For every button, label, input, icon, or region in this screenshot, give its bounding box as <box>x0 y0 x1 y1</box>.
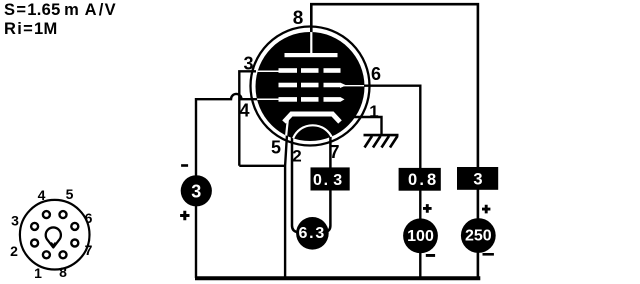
svg-text:8: 8 <box>293 8 304 29</box>
wire pin8 anode to HT top rail <box>311 4 478 278</box>
battery 3 minus <box>181 164 188 167</box>
svg-text:Ri=1M: Ri=1M <box>4 20 58 38</box>
grid row2 <box>279 83 346 88</box>
socket key <box>46 227 61 247</box>
svg-text:5: 5 <box>271 138 281 158</box>
svg-text:4: 4 <box>38 187 46 203</box>
resistor box 0.8 <box>399 168 441 191</box>
svg-text:100: 100 <box>407 228 434 245</box>
svg-text:3: 3 <box>191 181 201 201</box>
supply 250 plus <box>482 205 490 214</box>
anode lead white <box>310 31 312 54</box>
grid row1 <box>279 68 341 73</box>
svg-text:4: 4 <box>239 101 249 121</box>
socket pin5 hole <box>60 211 67 218</box>
svg-text:0.3: 0.3 <box>313 172 342 189</box>
svg-text:0.8: 0.8 <box>408 171 436 189</box>
tube V1 envelope <box>251 27 370 146</box>
wire heater pin7 <box>325 137 330 232</box>
supply 250 minus <box>483 253 494 256</box>
svg-text:S=1.65mA/V: S=1.65mA/V <box>4 1 116 19</box>
svg-text:1: 1 <box>34 265 42 281</box>
socket pin2 hole <box>31 240 38 247</box>
supply 100 plus <box>423 204 432 213</box>
socket pin1 hole <box>43 251 50 258</box>
heater supply 6.3 <box>296 217 329 250</box>
resistor box 3 <box>457 167 498 190</box>
svg-text:6: 6 <box>371 64 381 84</box>
grid3 lead white (pin4) <box>256 98 280 100</box>
wire pin3 grid down <box>239 71 256 166</box>
tube V1 interior <box>256 31 365 145</box>
heater arc <box>292 125 333 145</box>
svg-text:8: 8 <box>59 264 67 280</box>
battery 3 (grid bias) <box>181 175 212 206</box>
cathode <box>284 114 340 122</box>
svg-text:6: 6 <box>85 210 93 226</box>
wire pin1 to ground <box>350 117 382 134</box>
battery 3 plus <box>180 211 189 220</box>
anode plate <box>285 53 338 57</box>
svg-text:2: 2 <box>292 147 301 166</box>
svg-text:7: 7 <box>85 242 93 258</box>
supply 250 <box>461 218 496 253</box>
socket pin4 hole <box>43 211 50 218</box>
socket pin8 hole <box>60 251 67 258</box>
ground <box>364 135 399 147</box>
svg-text:6.3: 6.3 <box>298 225 324 242</box>
wire bottom rail <box>195 276 480 280</box>
cathode lead white <box>286 118 288 137</box>
grid2 lead white (pin6) <box>344 85 364 87</box>
wire junction pin3 to cathode <box>239 165 285 167</box>
svg-text:1: 1 <box>369 102 378 121</box>
svg-text:3: 3 <box>243 54 253 74</box>
svg-text:5: 5 <box>66 186 74 202</box>
socket pin7 hole <box>71 240 78 247</box>
supply 100 minus <box>426 254 435 257</box>
svg-text:250: 250 <box>465 228 492 245</box>
socket pin6 hole <box>71 223 78 230</box>
wire heater pin2 <box>292 134 298 232</box>
svg-text:7: 7 <box>329 142 339 162</box>
svg-text:2: 2 <box>10 243 18 259</box>
socket pin3 hole <box>31 223 38 230</box>
svg-text:3: 3 <box>473 171 482 189</box>
wire pin6 screen grid down to 0.8 box and 100 supply <box>361 86 420 278</box>
socket outline <box>20 200 90 270</box>
grid1 lead white (pin3) <box>256 70 280 72</box>
socket key notch <box>51 242 55 245</box>
wire cathode pin5 down to bottom rail <box>285 118 288 278</box>
grid row3 <box>279 97 345 102</box>
svg-text:3: 3 <box>11 213 19 229</box>
resistor box 0.3 <box>311 167 350 190</box>
wire pin4 control grid to battery (hop over pin3 wire) <box>196 94 258 278</box>
supply 100 <box>403 218 438 253</box>
